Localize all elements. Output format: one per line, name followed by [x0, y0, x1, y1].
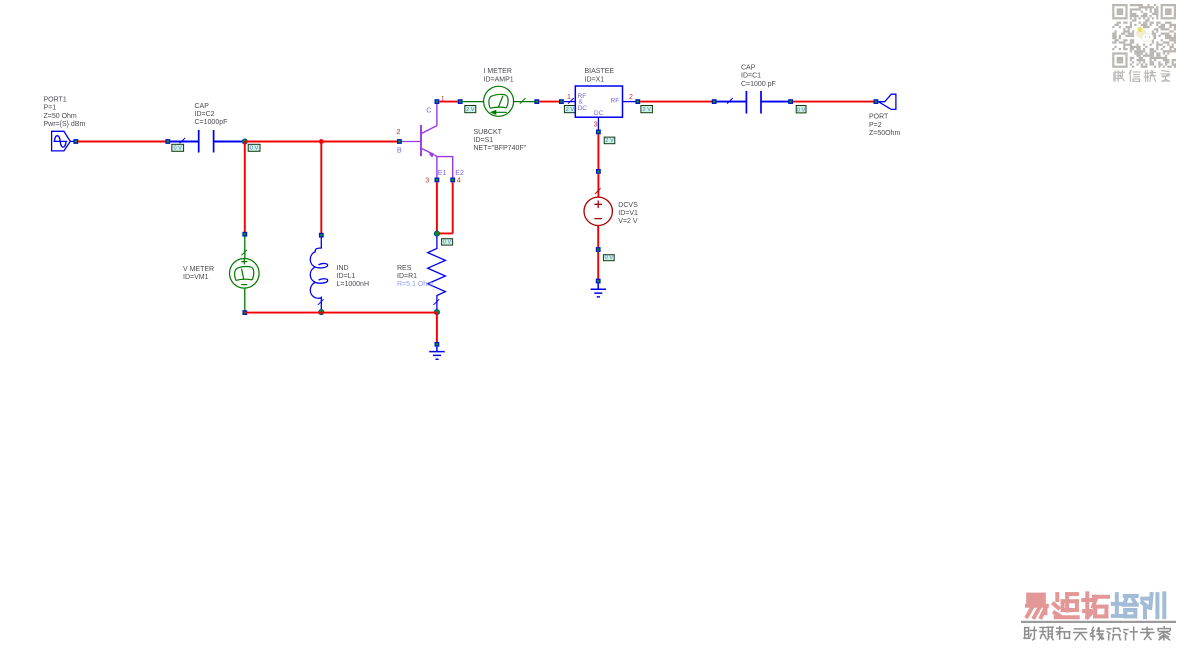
annotation tick at R1 bottom — [433, 299, 439, 305]
wire C1 right plate to node (blue) — [761, 101, 789, 103]
junction at emitter bus (green dot) — [434, 231, 439, 236]
annotation tick above V meter — [241, 250, 247, 256]
wire collector to I meter node (red) — [439, 101, 458, 103]
svg-text:RF: RF — [611, 98, 620, 105]
svg-text:3: 3 — [425, 177, 429, 184]
value box 2V at biastee output — [641, 106, 653, 113]
DC voltage source V1 — [584, 197, 612, 225]
svg-text:2 V: 2 V — [566, 107, 575, 113]
EDATOP logo text blue part (fake CJK) — [1113, 594, 1137, 616]
wire to ground node (red) — [597, 252, 599, 279]
wire DC node down (red) — [597, 134, 599, 169]
node at port1 output — [73, 139, 78, 144]
annotation tick on C2 input wire — [180, 138, 186, 144]
node E2 — [450, 178, 455, 183]
node before I meter — [458, 99, 463, 104]
wire port1 to C2 (red) — [78, 141, 166, 143]
annotation tick at C1 input — [727, 98, 733, 104]
I meter AMP1 — [484, 86, 514, 116]
node below DCVS — [596, 247, 601, 252]
svg-text:P=2: P=2 — [869, 122, 882, 129]
node after I meter — [534, 99, 539, 104]
value box 2V on DC stub — [604, 137, 615, 144]
wire node to C2 left plate (blue) — [170, 141, 198, 143]
logo tagline (fake CJK) — [1024, 627, 1036, 640]
value box 0V at C2 input — [172, 144, 184, 151]
junction at L1 bottom (green dot) — [319, 309, 324, 314]
node E1 — [435, 178, 440, 183]
svg-text:PORT1: PORT1 — [44, 97, 67, 104]
bottom bus wire (red) — [245, 312, 437, 314]
svg-text:2: 2 — [629, 94, 633, 101]
svg-text:4: 4 — [457, 177, 461, 184]
emitter wires down (red) — [436, 182, 438, 233]
svg-text:PORT: PORT — [869, 113, 889, 120]
svg-text:L=1000nH: L=1000nH — [337, 281, 370, 288]
value box 0V below DCVS — [603, 255, 614, 261]
wire node to DCVS (red) — [597, 174, 599, 197]
svg-text:Z=50 Ohm: Z=50 Ohm — [44, 113, 77, 120]
svg-text:0 V: 0 V — [173, 146, 182, 152]
annotation tick at biastee pin1 — [568, 98, 574, 104]
wire C1 to port2 (red) — [793, 101, 874, 103]
svg-text:CAP: CAP — [741, 64, 756, 71]
svg-text:CAP: CAP — [195, 103, 210, 110]
svg-text:ID=C1: ID=C1 — [741, 73, 761, 80]
node after C1 — [788, 99, 793, 104]
svg-text:E2: E2 — [455, 170, 464, 177]
node at biastee output — [635, 99, 640, 104]
svg-text:V METER: V METER — [183, 266, 214, 273]
svg-text:R=5.1 Ohm: R=5.1 Ohm — [397, 281, 433, 288]
ground 2 — [591, 283, 606, 297]
svg-text:C: C — [426, 108, 431, 115]
svg-text:DC: DC — [578, 105, 588, 112]
annotation tick above DCVS — [595, 188, 601, 194]
node before C2 — [165, 139, 170, 144]
svg-text:C=1000 pF: C=1000 pF — [741, 81, 776, 88]
port P1 source symbol — [52, 131, 74, 151]
wire junction A to transistor base (red) — [245, 141, 399, 143]
value box 2V at biastee input — [564, 106, 575, 113]
svg-text:ID=S1: ID=S1 — [474, 137, 494, 144]
svg-text:2: 2 — [397, 129, 401, 136]
EDATOP logo text red part (fake CJK) — [1027, 595, 1047, 618]
svg-text:ID=L1: ID=L1 — [337, 273, 356, 280]
svg-text:ID=C2: ID=C2 — [195, 111, 215, 118]
node at biastee input — [559, 99, 564, 104]
svg-text:DC: DC — [594, 110, 604, 117]
svg-text:1: 1 — [567, 94, 571, 101]
biastee X1 body — [575, 86, 622, 117]
svg-text:Z=50Ohm: Z=50Ohm — [869, 130, 900, 137]
svg-text:2 V: 2 V — [605, 138, 614, 144]
svg-text:SUBCKT: SUBCKT — [474, 129, 503, 136]
resistor R1 — [428, 236, 446, 310]
QR code (wechat contact) — [1112, 4, 1176, 68]
capacitor C2 — [198, 130, 200, 153]
wechat-contact caption (fake CJK) — [1114, 71, 1125, 82]
junction node A (green dot) — [242, 139, 247, 144]
V meter VM1 — [230, 259, 260, 289]
ground 1 — [429, 347, 445, 360]
svg-text:0 V: 0 V — [605, 255, 614, 261]
svg-text:2 V: 2 V — [466, 107, 475, 113]
svg-text:V=2 V: V=2 V — [618, 218, 638, 225]
V meter VM1 wire top (green) — [244, 237, 246, 259]
wire biastee pin2 out (blue) — [623, 101, 637, 103]
svg-text:Pwr={S} dBm: Pwr={S} dBm — [44, 121, 86, 128]
svg-text:0 V: 0 V — [797, 107, 806, 113]
wire out of I meter (green) — [514, 101, 535, 103]
QR centre wechat icon — [1136, 27, 1154, 42]
svg-text:I METER: I METER — [484, 68, 512, 75]
V meter wire bottom (green) — [244, 288, 246, 311]
wire into I meter (green) — [463, 101, 484, 103]
svg-text:2 V: 2 V — [642, 107, 651, 113]
node before C1 — [712, 99, 717, 104]
value box 2V at collector — [465, 106, 476, 113]
wire node to biastee pin 1 (blue) — [564, 101, 576, 103]
node above DCVS — [596, 169, 601, 174]
svg-text:IND: IND — [337, 265, 349, 272]
svg-text:BIASTEE: BIASTEE — [585, 68, 615, 75]
node above ground 1 — [435, 342, 440, 347]
svg-text:3: 3 — [594, 122, 598, 129]
transistor S1 base wire (purple) — [401, 141, 421, 143]
junction at R1 bottom (green dot) — [434, 309, 439, 314]
node at V meter top — [242, 232, 247, 237]
svg-text:ID=R1: ID=R1 — [397, 273, 417, 280]
wire R1 junction to ground (red) — [436, 313, 438, 343]
wire inductor tap down (red) — [320, 142, 322, 234]
annotation tick at L1 bottom — [318, 299, 324, 305]
node at collector top — [435, 99, 440, 104]
value box 0V after junction A — [248, 144, 260, 151]
logo underline — [1021, 621, 1176, 623]
node at inductor top — [319, 233, 324, 238]
svg-text:0 V: 0 V — [250, 146, 259, 152]
port P2 symbol — [878, 94, 896, 109]
value box 0V at emitter — [442, 239, 453, 245]
node on DC stub — [596, 130, 601, 135]
annotation tick after I meter — [520, 98, 526, 104]
capacitor C1 — [745, 91, 747, 114]
svg-text:0 V: 0 V — [443, 240, 452, 246]
svg-text:DCVS: DCVS — [618, 202, 638, 209]
wire biastee to C1 (red) — [640, 101, 712, 103]
transistor S1 symbol — [421, 104, 453, 178]
wire node to C1 left plate (blue) — [717, 101, 746, 103]
node at V meter bottom — [242, 310, 247, 315]
svg-text:P=1: P=1 — [44, 105, 57, 112]
biastee DC stub (blue) — [597, 117, 599, 130]
svg-text:C=1000pF: C=1000pF — [195, 119, 228, 126]
node above ground 2 — [596, 279, 601, 284]
inductor L1 — [310, 237, 327, 310]
svg-text:E1: E1 — [438, 170, 447, 177]
node at base — [397, 139, 402, 144]
svg-text:ID=X1: ID=X1 — [585, 76, 605, 83]
svg-text:RES: RES — [397, 265, 412, 272]
svg-text:ID=AMP1: ID=AMP1 — [484, 76, 514, 83]
wire to biastee (red) — [539, 101, 559, 103]
svg-text:NET="BFP740F": NET="BFP740F" — [474, 145, 527, 152]
wire junction A down to V meter (red) — [244, 142, 246, 233]
svg-text:ID=V1: ID=V1 — [618, 210, 638, 217]
svg-text:B: B — [397, 147, 402, 154]
junction at inductor tap (red dot) — [319, 139, 324, 144]
wire C2 right plate to junction (blue) — [214, 141, 245, 143]
node at port2 — [874, 99, 879, 104]
svg-text:ID=VM1: ID=VM1 — [183, 274, 209, 281]
value box 0V after C1 — [796, 106, 806, 113]
wire DCVS to node (red) — [597, 226, 599, 248]
